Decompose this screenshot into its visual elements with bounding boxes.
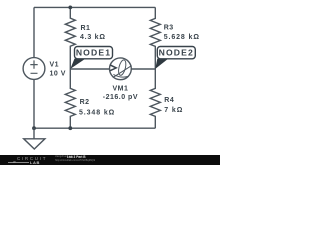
svg-text:NODE2: NODE2: [159, 47, 194, 57]
svg-text:10 V: 10 V: [50, 70, 66, 77]
resistor R4: [150, 69, 160, 128]
voltmeter VM1: [110, 58, 132, 80]
CircuitLab logo: [17, 156, 47, 161]
wire NODE1 to VM1 left terminal: [70, 68, 109, 70]
watermark bar: [0, 155, 220, 166]
node NODE2: [155, 47, 195, 69]
watermark url text: [55, 159, 95, 162]
svg-text:5.348 kΩ: 5.348 kΩ: [79, 109, 115, 116]
svg-text:7 kΩ: 7 kΩ: [164, 107, 183, 114]
wire VM1 right terminal to NODE2: [131, 68, 155, 70]
resistor R2: [65, 69, 75, 128]
svg-text:R1: R1: [81, 25, 91, 32]
resistor R1: [65, 7, 75, 69]
svg-text:-216.0 pV: -216.0 pV: [103, 94, 138, 101]
svg-text:V1: V1: [50, 62, 60, 69]
svg-text:5.628 kΩ: 5.628 kΩ: [164, 34, 200, 41]
svg-text:R4: R4: [164, 97, 174, 104]
svg-text:4.3 kΩ: 4.3 kΩ: [80, 34, 106, 41]
wire left vertical (V1 top to top rail): [33, 7, 35, 57]
resistor R3: [150, 7, 160, 69]
svg-text:R2: R2: [80, 99, 90, 106]
svg-text:R3: R3: [164, 25, 174, 32]
junction top rail / R1: [68, 6, 72, 10]
wire bottom rail horizontal: [34, 127, 155, 129]
watermark title text: [55, 155, 72, 158]
svg-text:NODE1: NODE1: [76, 47, 111, 57]
junction bottom rail / ground: [32, 126, 36, 130]
voltage source V1: [23, 58, 45, 80]
svg-text:VM1: VM1: [112, 86, 128, 93]
node NODE1: [70, 47, 112, 69]
wire top rail horizontal: [34, 6, 155, 8]
ground: [24, 128, 45, 149]
wire left vertical (V1 bottom to bottom rail): [33, 79, 35, 128]
junction bottom rail / R2: [68, 126, 72, 130]
